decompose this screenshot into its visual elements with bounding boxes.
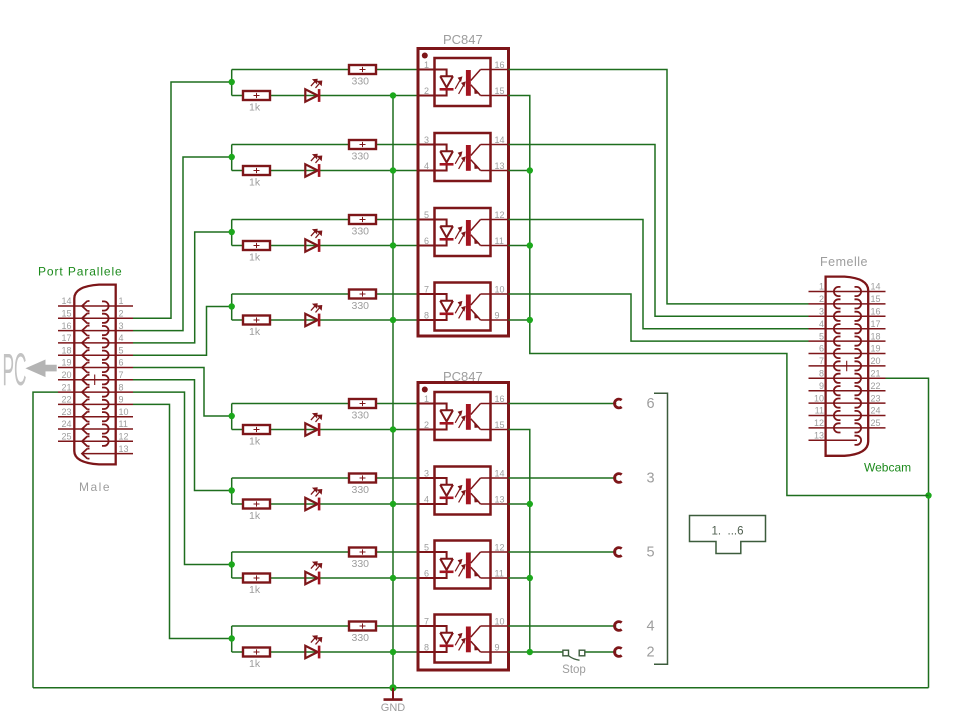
X1 origin cross: [90, 375, 101, 386]
wire: Stop switch to output socket 2: [585, 651, 616, 653]
wire: Male pin 9 data to channel 8: [133, 404, 232, 638]
resistor R12 330: [349, 290, 376, 313]
svg-text:20: 20: [871, 356, 881, 366]
svg-text:12: 12: [495, 210, 505, 220]
wire: channel 5 series rows: [232, 404, 418, 430]
svg-text:23: 23: [61, 407, 71, 417]
svg-text:3: 3: [646, 471, 654, 487]
switch S1 Stop: [563, 650, 585, 660]
wire: U2 pin 9 row to Stop switch: [509, 651, 563, 653]
wire: Femelle pin 21 down to GND rail: [886, 378, 929, 688]
wire: channel 2 series rows: [232, 145, 418, 171]
label Femelle: [820, 255, 868, 269]
wire: channel 1 series rows: [232, 70, 418, 96]
label output 3: [646, 471, 654, 487]
svg-text:7: 7: [819, 356, 824, 366]
svg-text:5: 5: [424, 543, 429, 553]
svg-text:17: 17: [871, 319, 881, 329]
X2 pin numbers: [814, 282, 881, 441]
pin socket output 5: [615, 548, 622, 557]
wire: Male pin 7 data to channel 6: [133, 380, 232, 491]
svg-text:2: 2: [646, 645, 654, 661]
svg-text:2: 2: [424, 86, 429, 96]
X1 pin numbers: [61, 296, 128, 454]
resistor R3 1k: [243, 241, 270, 264]
svg-text:22: 22: [61, 395, 71, 405]
wire: Male pin 6 data to channel 5: [133, 368, 232, 417]
LED D7: [305, 562, 321, 585]
svg-text:1: 1: [119, 296, 124, 306]
svg-text:11: 11: [119, 419, 128, 429]
node: channel 8 input junction: [229, 635, 235, 641]
resistor R14 330: [349, 474, 376, 497]
junction: emitter-return joins Femelle pin21 riser: [925, 492, 931, 498]
svg-text:11: 11: [495, 569, 504, 579]
wire: U1 pin 12 collector to Femelle pin 4: [509, 220, 809, 329]
svg-text:1k: 1k: [249, 177, 261, 189]
wire: U1 pin 16 collector to Femelle pin 2: [509, 70, 809, 304]
wire: channel 8 series rows: [232, 626, 418, 652]
svg-text:1: 1: [424, 394, 429, 404]
node: channel 1 input junction: [229, 79, 235, 85]
bracket grouping outputs: [654, 393, 668, 664]
LED D6: [305, 488, 321, 511]
svg-text:14: 14: [495, 135, 505, 145]
LED D1: [305, 79, 321, 102]
svg-text:4: 4: [646, 619, 654, 635]
junction: channel 7 cathode row / GND bus: [390, 575, 396, 581]
svg-text:5: 5: [646, 545, 654, 561]
svg-text:14: 14: [61, 296, 71, 306]
svg-text:15: 15: [61, 309, 71, 319]
svg-text:16: 16: [871, 307, 881, 317]
node: channel 4 input junction: [229, 303, 235, 309]
svg-text:3: 3: [424, 469, 429, 479]
svg-text:8: 8: [424, 643, 429, 653]
node: channel 6 input junction: [229, 487, 235, 493]
wire: LED cathode bus vertical to GND: [392, 96, 394, 688]
svg-text:Webcam: Webcam: [864, 461, 911, 475]
junction: channel 6 cathode row / GND bus: [390, 501, 396, 507]
resistor R7 1k: [243, 574, 270, 597]
junction: U2 emitter common node 2: [527, 575, 533, 581]
svg-text:4: 4: [119, 333, 124, 343]
svg-text:Femelle: Femelle: [820, 255, 868, 269]
wire: U2 pin 12 collector to output socket 5: [509, 551, 617, 553]
resistor R6 1k: [243, 500, 270, 523]
wire: Male pin 2 data to channel 1: [133, 82, 232, 318]
connector X1 DB25 Male body: [74, 285, 115, 465]
svg-text:330: 330: [352, 410, 370, 422]
junction: U2 emitter common node 1: [527, 501, 533, 507]
svg-text:Stop: Stop: [562, 664, 586, 676]
optocoupler U1 PC847 outer box: [418, 49, 509, 337]
svg-text:2: 2: [424, 420, 429, 430]
svg-text:1k: 1k: [249, 658, 261, 670]
svg-text:330: 330: [352, 300, 370, 312]
wire: U2 pin 11 emitter stub: [509, 577, 530, 579]
LED D2: [305, 154, 321, 177]
svg-text:13: 13: [495, 495, 505, 505]
svg-text:10: 10: [495, 617, 505, 627]
junction: U1 emitter common node 2: [527, 242, 533, 248]
svg-text:6: 6: [119, 358, 124, 368]
optocoupler U2 PC847 outer box: [418, 383, 509, 671]
label output 2: [646, 645, 654, 661]
svg-text:13: 13: [119, 444, 129, 454]
svg-text:Male: Male: [79, 480, 111, 494]
svg-text:18: 18: [871, 331, 881, 341]
svg-text:24: 24: [871, 406, 881, 416]
resistor R11 330: [349, 215, 376, 238]
svg-text:8: 8: [119, 382, 124, 392]
svg-text:19: 19: [61, 358, 71, 368]
wire: U1 pin 10 collector to Femelle pin 5: [509, 294, 809, 341]
X1 pin lines 1-25: [58, 306, 133, 454]
wire: U1 pin 14 collector to Femelle pin 3: [509, 145, 809, 317]
wire: U1 pin 9 emitter stub: [509, 319, 530, 321]
wire: Male pin 5 data to channel 4: [133, 307, 232, 356]
svg-text:14: 14: [871, 282, 881, 292]
svg-text:6: 6: [646, 396, 654, 412]
svg-text:6: 6: [424, 236, 429, 246]
svg-text:14: 14: [495, 469, 505, 479]
opto channel 4 of U1: [418, 283, 509, 331]
svg-text:9: 9: [119, 395, 124, 405]
svg-text:7: 7: [424, 617, 429, 627]
X2 pin hooks: [834, 287, 861, 445]
junction: U1 emitter common node 1: [527, 167, 533, 173]
wire: Male pin 4 data to channel 3: [133, 232, 232, 343]
svg-text:18: 18: [61, 345, 71, 355]
connector outline 1..6 jack: [690, 516, 766, 554]
U2 left pin numbers 1-8: [424, 394, 429, 653]
wire: U1 pin 13 emitter stub: [509, 170, 530, 172]
label PC host: [3, 344, 57, 395]
svg-text:330: 330: [352, 484, 370, 496]
svg-text:6: 6: [424, 569, 429, 579]
X2 origin cross: [842, 361, 853, 372]
svg-text:11: 11: [495, 236, 504, 246]
svg-text:23: 23: [871, 393, 881, 403]
svg-text:Port Parallele: Port Parallele: [38, 265, 123, 279]
svg-text:12: 12: [119, 432, 129, 442]
wire: channel 4 series rows: [232, 294, 418, 320]
label output 5: [646, 545, 654, 561]
svg-text:7: 7: [119, 370, 124, 380]
svg-text:3: 3: [119, 321, 124, 331]
junction: channel 3 cathode row / GND bus: [390, 242, 396, 248]
opto channel 2 of U2: [418, 467, 509, 515]
svg-text:1. ...6: 1. ...6: [712, 526, 744, 538]
svg-text:6: 6: [819, 344, 824, 354]
svg-text:16: 16: [61, 321, 71, 331]
svg-text:PC847: PC847: [443, 369, 483, 384]
svg-text:1k: 1k: [249, 252, 261, 264]
svg-text:16: 16: [495, 394, 505, 404]
connector X2 DB25 Femelle body: [826, 277, 869, 456]
svg-text:1: 1: [819, 282, 824, 292]
svg-text:5: 5: [119, 345, 124, 355]
label Port Parallele: [38, 265, 123, 279]
label output 6: [646, 396, 654, 412]
svg-text:22: 22: [871, 381, 881, 391]
svg-text:25: 25: [871, 418, 881, 428]
resistor R4 1k: [243, 316, 270, 339]
opto channel 4 of U2: [418, 615, 509, 663]
wire: U1 emitter common to Femelle area: [509, 96, 929, 496]
label Male: [79, 480, 111, 494]
svg-text:21: 21: [871, 369, 881, 379]
wire: U2 pin 16 collector to output socket 6: [509, 403, 617, 405]
junction: U2 emitter common at pin 9 row: [527, 649, 533, 655]
junction: cathode bus / GND rail: [389, 684, 396, 691]
svg-text:9: 9: [495, 311, 500, 321]
svg-text:15: 15: [495, 420, 505, 430]
resistor R8 1k: [243, 648, 270, 671]
svg-text:1: 1: [424, 60, 429, 70]
svg-text:8: 8: [424, 311, 429, 321]
wire: U2 pin 13 emitter stub: [509, 503, 530, 505]
svg-text:3: 3: [819, 307, 824, 317]
svg-text:4: 4: [424, 495, 429, 505]
svg-text:1k: 1k: [249, 102, 261, 114]
label Webcam: [864, 461, 911, 475]
svg-text:PC: PC: [3, 344, 27, 395]
svg-text:PC847: PC847: [443, 32, 483, 47]
opto channel 2 of U1: [418, 133, 509, 181]
wire: channel 7 series rows: [232, 552, 418, 578]
node: channel 5 input junction: [229, 413, 235, 419]
wire: U2 pin 14 collector to output socket 3: [509, 477, 617, 479]
wire: Male pin 21 to GND rail: [33, 392, 58, 688]
svg-text:4: 4: [424, 161, 429, 171]
wire: U2 pin 10 collector to output socket 4: [509, 625, 617, 627]
pin socket output 2: [615, 648, 622, 657]
label Stop: [562, 664, 586, 676]
svg-text:5: 5: [819, 331, 824, 341]
X2 pin lines 1-25: [809, 292, 886, 441]
resistor R13 330: [349, 399, 376, 422]
resistor R5 1k: [243, 425, 270, 448]
U2 right pin numbers 9-16: [495, 394, 505, 653]
wire: U2 emitter common vertical: [509, 430, 530, 653]
node: channel 3 input junction: [229, 229, 235, 235]
resistor R16 330: [349, 622, 376, 645]
resistor R9 330: [349, 65, 376, 88]
svg-text:15: 15: [871, 294, 881, 304]
resistor R10 330: [349, 140, 376, 163]
LED D3: [305, 229, 321, 252]
junction: channel 8 cathode row / GND bus: [390, 649, 396, 655]
wire: channel 3 series rows: [232, 220, 418, 246]
svg-text:2: 2: [819, 294, 824, 304]
opto channel 1 of U1: [418, 58, 509, 106]
svg-text:GND: GND: [381, 702, 406, 714]
opto channel 3 of U1: [418, 208, 509, 256]
svg-text:1k: 1k: [249, 584, 261, 596]
junction: channel 5 cathode row / GND bus: [390, 426, 396, 432]
svg-text:330: 330: [352, 558, 370, 570]
svg-text:12: 12: [814, 418, 824, 428]
resistor R15 330: [349, 548, 376, 571]
svg-text:21: 21: [61, 382, 71, 392]
svg-text:5: 5: [424, 210, 429, 220]
svg-text:20: 20: [61, 370, 71, 380]
wire: U1 pin 11 emitter stub: [509, 245, 530, 247]
svg-text:330: 330: [352, 76, 370, 88]
svg-text:9: 9: [819, 381, 824, 391]
pin socket output 3: [615, 474, 622, 483]
svg-text:10: 10: [814, 393, 824, 403]
node: channel 2 input junction: [229, 154, 235, 160]
U2 name label PC847: [443, 369, 483, 384]
U1 right pin numbers 9-16: [495, 60, 505, 321]
ground GND: [381, 688, 406, 714]
wire: Male pin 3 data to channel 2: [133, 157, 232, 331]
svg-text:15: 15: [495, 86, 505, 96]
svg-text:17: 17: [61, 333, 71, 343]
svg-text:10: 10: [495, 285, 505, 295]
svg-text:25: 25: [61, 432, 71, 442]
svg-text:13: 13: [814, 431, 824, 441]
resistor R2 1k: [243, 166, 270, 189]
svg-text:24: 24: [61, 419, 71, 429]
junction: channel 2 cathode row / GND bus: [390, 167, 396, 173]
opto channel 1 of U2: [418, 392, 509, 440]
svg-text:1k: 1k: [249, 436, 261, 448]
wire: Male pin 8 data to channel 7: [133, 392, 232, 564]
resistor R1 1k: [243, 91, 270, 114]
pin socket output 6: [615, 399, 622, 408]
X1 pin hooks: [82, 301, 109, 459]
svg-text:1k: 1k: [249, 326, 261, 338]
svg-text:7: 7: [424, 285, 429, 295]
wire: bottom GND rail net: [33, 687, 929, 689]
svg-text:11: 11: [815, 406, 824, 416]
LED D5: [305, 413, 321, 436]
svg-text:12: 12: [495, 543, 505, 553]
U1 name label PC847: [443, 32, 483, 47]
svg-text:2: 2: [119, 309, 124, 319]
svg-text:330: 330: [352, 632, 370, 644]
svg-text:330: 330: [352, 151, 370, 163]
svg-text:8: 8: [819, 369, 824, 379]
svg-text:13: 13: [495, 161, 505, 171]
LED D8: [305, 636, 321, 659]
svg-text:4: 4: [819, 319, 824, 329]
label output 4: [646, 619, 654, 635]
junction: U1 emitter common node 3: [527, 317, 533, 323]
svg-text:3: 3: [424, 135, 429, 145]
U1 left pin numbers 1-8: [424, 60, 429, 321]
opto channel 3 of U2: [418, 541, 509, 589]
junction: channel 4 cathode row / GND bus: [390, 317, 396, 323]
junction: channel 1 cathode row / GND bus: [390, 92, 396, 98]
svg-text:16: 16: [495, 60, 505, 70]
wire: channel 6 series rows: [232, 478, 418, 504]
svg-text:19: 19: [871, 344, 881, 354]
svg-text:330: 330: [352, 226, 370, 238]
svg-text:9: 9: [495, 643, 500, 653]
svg-text:10: 10: [119, 407, 129, 417]
svg-text:1k: 1k: [249, 510, 261, 522]
pin socket output 4: [615, 622, 622, 631]
LED D4: [305, 304, 321, 327]
node: channel 7 input junction: [229, 561, 235, 567]
